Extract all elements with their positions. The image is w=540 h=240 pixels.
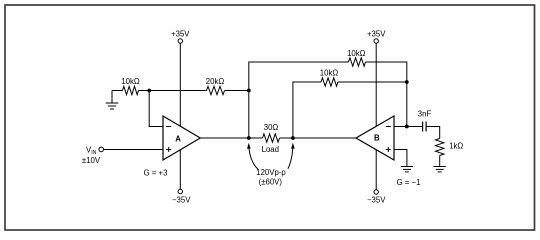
wire B inv input to node (394, 126, 422, 128)
svg-text:10kΩ: 10kΩ (347, 49, 366, 58)
pointer arrow left (VoutA) (247, 143, 258, 169)
node VoutA top junction (247, 89, 251, 93)
label 30 Ohm (264, 123, 279, 132)
label 3nF (418, 110, 432, 119)
ground GND1 (A feedback divider) (106, 91, 119, 110)
svg-text:G = −1: G = −1 (397, 178, 421, 187)
svg-text:A: A (175, 135, 181, 144)
node A-inv junction (147, 89, 151, 93)
label G=-1 (397, 178, 421, 187)
node B inv input (405, 125, 409, 129)
terminal -35V (B) (374, 190, 378, 194)
wire 10k to 20k (139, 90, 207, 92)
label G=+3 (144, 169, 168, 178)
node VoutB on load (291, 136, 295, 140)
label +/-10V (82, 156, 101, 165)
svg-text:G = +3: G = +3 (144, 169, 168, 178)
label -35V (A) (172, 195, 191, 204)
pointer arrow right (VoutB) (288, 143, 295, 169)
svg-text:±10V: ±10V (82, 156, 101, 165)
svg-text:B: B (374, 134, 380, 143)
svg-text:−35V: −35V (172, 195, 191, 204)
label 120Vp-p (256, 168, 286, 177)
resistor 1k (436, 139, 444, 156)
wire VIN to A + input (104, 149, 164, 151)
terminal +35V (B) (374, 39, 378, 43)
wire B non-inv to ground (394, 150, 407, 167)
svg-text:Load: Load (262, 145, 279, 154)
svg-text:VIN: VIN (86, 146, 97, 156)
label 10kOhm (top) (347, 49, 366, 58)
label 10kOhm (B feedback) (320, 69, 339, 78)
svg-text:+35V: +35V (367, 30, 386, 39)
svg-text:(±60V): (±60V) (259, 177, 283, 186)
resistor 10k (A gain-set) (123, 86, 139, 94)
svg-text:10kΩ: 10kΩ (121, 77, 140, 86)
svg-text:+35V: +35V (171, 30, 190, 39)
resistor 10k (B feedback) (321, 78, 338, 86)
wire GND1 to R-10k (112, 90, 123, 92)
svg-text:1kΩ: 1kΩ (449, 142, 463, 151)
svg-text:3nF: 3nF (418, 110, 432, 119)
wire top 10k to B-inv riser (366, 62, 407, 127)
op-amp U-A (163, 116, 200, 160)
label 10kOhm (A gain-set) (121, 77, 140, 86)
svg-text:10kΩ: 10kΩ (320, 69, 339, 78)
svg-text:120Vp-p: 120Vp-p (256, 168, 286, 177)
label (+/-60V) (259, 177, 283, 186)
wire A output to load (200, 137, 262, 139)
svg-text:−35V: −35V (367, 195, 386, 204)
wire +35V to B top (375, 43, 377, 126)
wire +35V to A top (179, 43, 181, 126)
label -35V (B) (367, 195, 386, 204)
wire cap to 1k (426, 127, 440, 139)
terminal -35V (A) (178, 189, 182, 193)
wire 20k to node VoutA (225, 90, 249, 92)
op-amp U-B (356, 116, 394, 160)
svg-text:30Ω: 30Ω (264, 123, 279, 132)
label VIN (86, 146, 97, 156)
label +35V (A) (171, 30, 190, 39)
label 1kOhm (449, 142, 463, 151)
wire VoutB vertical riser (293, 82, 321, 138)
capacitor 3nF (423, 122, 427, 132)
resistor 30 Ohm load (263, 134, 280, 142)
wire node down to A inverting input (149, 91, 163, 127)
label Load (262, 145, 279, 154)
terminal VIN (99, 147, 104, 152)
label +35V (B) (367, 30, 386, 39)
resistor 10k (top, B input from VoutA) (349, 58, 366, 66)
svg-text:20kΩ: 20kΩ (206, 77, 225, 86)
label 20kOhm (206, 77, 225, 86)
terminal +35V (A) (178, 39, 182, 43)
wire VoutA vertical riser (249, 62, 349, 138)
ground GND2 (under 1k) (434, 156, 446, 172)
wire load to B output (280, 137, 357, 139)
ground GND3 (B non-inv) (401, 167, 413, 172)
node B feedback junction (405, 80, 409, 84)
wire B feedback 10k to node (338, 81, 407, 83)
resistor 20k (A feedback) (207, 86, 225, 94)
wire B bottom to -35V (375, 150, 377, 190)
wire A bottom to -35V (179, 150, 181, 190)
node VoutA on load (247, 136, 251, 140)
